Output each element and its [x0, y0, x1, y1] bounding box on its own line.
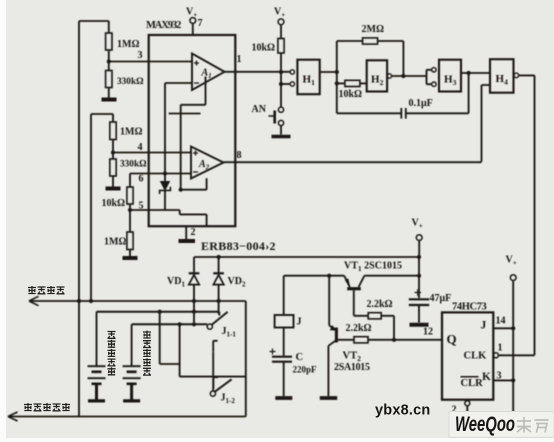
plus C2 [415, 289, 422, 296]
pin 2 open circle [465, 401, 470, 406]
resistor R5 10k [129, 174, 131, 188]
wire pin 3 row [109, 61, 192, 63]
svg-text:10kΩ: 10kΩ [339, 89, 363, 100]
capacitor C2 47uF [418, 276, 420, 298]
node Q row junction [392, 338, 396, 342]
node K pin junction [511, 378, 515, 382]
relay coil J [283, 276, 285, 315]
ground pin 2 [179, 239, 196, 243]
wire pin 4 row [113, 152, 191, 154]
svg-text:47μF: 47μF [430, 293, 452, 304]
ground below R6 [123, 256, 138, 260]
svg-text:ybx8.cn: ybx8.cn [375, 403, 430, 419]
wire pin 5 row [130, 209, 180, 211]
ground 47uF [410, 323, 429, 327]
svg-text:CLK: CLK [464, 351, 488, 362]
label jie-dian-zi-she-bei (connect electronic device) [24, 403, 70, 411]
wire rail to VT1 row [418, 257, 420, 276]
wire pin 8 row [224, 161, 482, 163]
svg-text:Q: Q [447, 332, 457, 347]
wire charger input row [29, 300, 246, 302]
svg-text:K: K [482, 371, 491, 383]
node pin1/pullup junction [279, 70, 283, 74]
node charger row junctions [77, 299, 81, 303]
wire J pin 14 [493, 327, 513, 329]
ground C3 [275, 396, 292, 400]
wire A1 feedback inner [181, 77, 206, 190]
capacitor C1 0.1uF [337, 112, 402, 114]
ground below R2 [102, 98, 117, 102]
label charged battery pack (vertical) [143, 331, 151, 376]
node H1 lower input junction [279, 82, 283, 86]
node pin5 junction [128, 208, 132, 212]
wire VT1 base to R10 [354, 290, 368, 316]
wire J1-2 row [180, 376, 246, 378]
node VD2 rail junction [217, 255, 221, 259]
IC U2 74HC73 box [442, 312, 493, 399]
IC U1 MAX932 package box [149, 35, 236, 226]
svg-text:8: 8 [237, 150, 242, 161]
svg-text:MAX932: MAX932 [146, 20, 181, 31]
diode VD2 [218, 257, 220, 273]
relay contact J1-2 [210, 391, 215, 396]
wire VT1 base row left [284, 275, 345, 277]
svg-text:2MΩ: 2MΩ [362, 24, 384, 35]
gate H2 [367, 60, 387, 91]
svg-text:J: J [297, 317, 302, 328]
svg-text:2.2kΩ: 2.2kΩ [367, 299, 393, 310]
svg-text:WeeQoo: WeeQoo [455, 413, 515, 436]
resistor R4 330k [112, 153, 114, 160]
node 10k/H2 input junction [335, 81, 339, 85]
label jie-chong-dian-qi (connect charger) [28, 286, 65, 294]
svg-text:4: 4 [138, 142, 143, 153]
wire H1 lower input stub [281, 83, 290, 85]
resistor R11 2.2k [354, 337, 368, 343]
diode VD1 [193, 257, 195, 273]
zener reference diode inside MAX932 [164, 174, 166, 182]
wire VT2 base row [337, 339, 354, 341]
battery B1 pack stem [96, 312, 98, 366]
wire inner stub [169, 113, 201, 115]
wire mid link L2 [179, 324, 181, 376]
gate H4 [490, 59, 514, 92]
ground AN [272, 135, 291, 139]
ground VT2 collector [320, 396, 337, 400]
svg-text:1: 1 [237, 54, 242, 65]
gate H1 [290, 70, 294, 74]
resistor R7 10k pull-up [278, 39, 284, 54]
wire battery top row 1 [97, 311, 220, 313]
gate H3 input tie [427, 70, 432, 84]
battery B2 plates [123, 366, 141, 378]
svg-text:3: 3 [497, 371, 502, 382]
gate H3 [439, 60, 461, 92]
wire pin 1 output row [225, 71, 291, 73]
wire pin5 inner routing [180, 210, 207, 226]
wire right loop vertical [245, 301, 247, 417]
wire A1 inverting input inner [165, 83, 192, 174]
svg-text:5: 5 [139, 201, 144, 212]
node VT1 collector junction [417, 274, 421, 278]
svg-text:10kΩ: 10kΩ [102, 198, 126, 209]
svg-text:12: 12 [423, 327, 433, 338]
svg-text:0.1μF: 0.1μF [409, 98, 433, 109]
wire device output row [8, 416, 246, 418]
capacitor C3 220pF [272, 357, 292, 362]
node zener top [163, 171, 167, 175]
wire pin 6 row [130, 173, 191, 175]
wire K pin 3 [493, 379, 513, 381]
wire left outer vertical [78, 21, 80, 417]
op-amp A1 comparator [192, 54, 225, 91]
svg-text:VT1 2SC1015: VT1 2SC1015 [344, 261, 402, 274]
wire charge rail [194, 256, 419, 258]
wire H3 output [461, 72, 490, 74]
ground below R4 [106, 187, 121, 191]
wire H4 second input from pin 8 [482, 85, 491, 162]
svg-text:ERB83−004›2: ERB83−004›2 [201, 239, 276, 253]
svg-text:1MΩ: 1MΩ [104, 237, 126, 248]
terminal V+ pull-up [278, 19, 284, 25]
battery B1 plates [88, 366, 106, 378]
terminal V+ mid [416, 235, 422, 241]
watermark weiku glyphs [517, 417, 549, 433]
svg-text:2SA1015: 2SA1015 [334, 362, 370, 373]
svg-text:2: 2 [191, 227, 196, 238]
pin 2 wire [185, 226, 187, 239]
pin CLK bubble pin 1 [493, 353, 498, 358]
node rail V+ junction [417, 255, 421, 259]
svg-text:10kΩ: 10kΩ [252, 43, 276, 54]
wire mid link L1 [160, 312, 180, 364]
resistor R6 1M [129, 210, 131, 232]
pushbutton AN [278, 107, 283, 112]
svg-text:1MΩ: 1MΩ [120, 127, 142, 138]
resistor R3 1M [112, 114, 114, 122]
svg-text:7: 7 [198, 18, 203, 29]
op-amp A2 comparator [191, 147, 224, 179]
battery B2 pack stem [131, 324, 133, 365]
resistor R1 1M [108, 21, 110, 33]
svg-text:330kΩ: 330kΩ [120, 160, 147, 170]
wire H4 output to CLK [519, 75, 535, 355]
node H1 out junction [335, 70, 339, 74]
svg-text:220pF: 220pF [293, 365, 318, 375]
svg-text:2.2kΩ: 2.2kΩ [346, 323, 372, 334]
svg-text:CLR: CLR [461, 378, 484, 389]
svg-text:AN: AN [252, 104, 267, 115]
plus C3 [270, 349, 276, 355]
resistor R10 2.2k [368, 313, 381, 319]
svg-text:14: 14 [496, 316, 506, 327]
svg-text:6: 6 [139, 174, 144, 185]
wire second divider top [91, 114, 113, 301]
arrow charger input [29, 296, 39, 305]
resistor R8 10k coupling [337, 82, 345, 84]
arrow device output [8, 412, 18, 421]
wire H1 output [320, 41, 337, 113]
node VT2 emitter junction [327, 274, 331, 278]
transistor VT2 2SA1015 [328, 276, 330, 326]
node H3 output junction [467, 71, 471, 75]
node pin4 divider junction [111, 150, 115, 154]
svg-text:J: J [481, 320, 487, 332]
svg-text:C: C [296, 352, 304, 363]
watermark panel [449, 412, 554, 438]
wire battery top row 2 [132, 323, 208, 325]
svg-text:330kΩ: 330kΩ [117, 77, 144, 87]
resistor R9 2M feedback [337, 40, 363, 42]
transistor VT1 2SC1015 [347, 287, 361, 290]
node pin3 divider junction [107, 59, 111, 63]
node inner feedback junction [179, 188, 183, 192]
resistor R2 330k [108, 62, 110, 71]
label charging battery pack (vertical) [108, 332, 116, 376]
svg-text:1: 1 [498, 343, 503, 354]
wire top-left corner feed [79, 20, 109, 22]
svg-text:74HC73: 74HC73 [452, 302, 487, 313]
node H2 output junction [401, 74, 405, 78]
relay contact J1-1 [207, 324, 212, 329]
node J pin junction [511, 326, 515, 330]
terminal V+ right [510, 275, 516, 281]
terminal V+ pin 7 [190, 18, 196, 24]
CLR overline [461, 376, 479, 378]
svg-text:3: 3 [138, 50, 143, 61]
svg-text:1MΩ: 1MΩ [117, 39, 139, 50]
